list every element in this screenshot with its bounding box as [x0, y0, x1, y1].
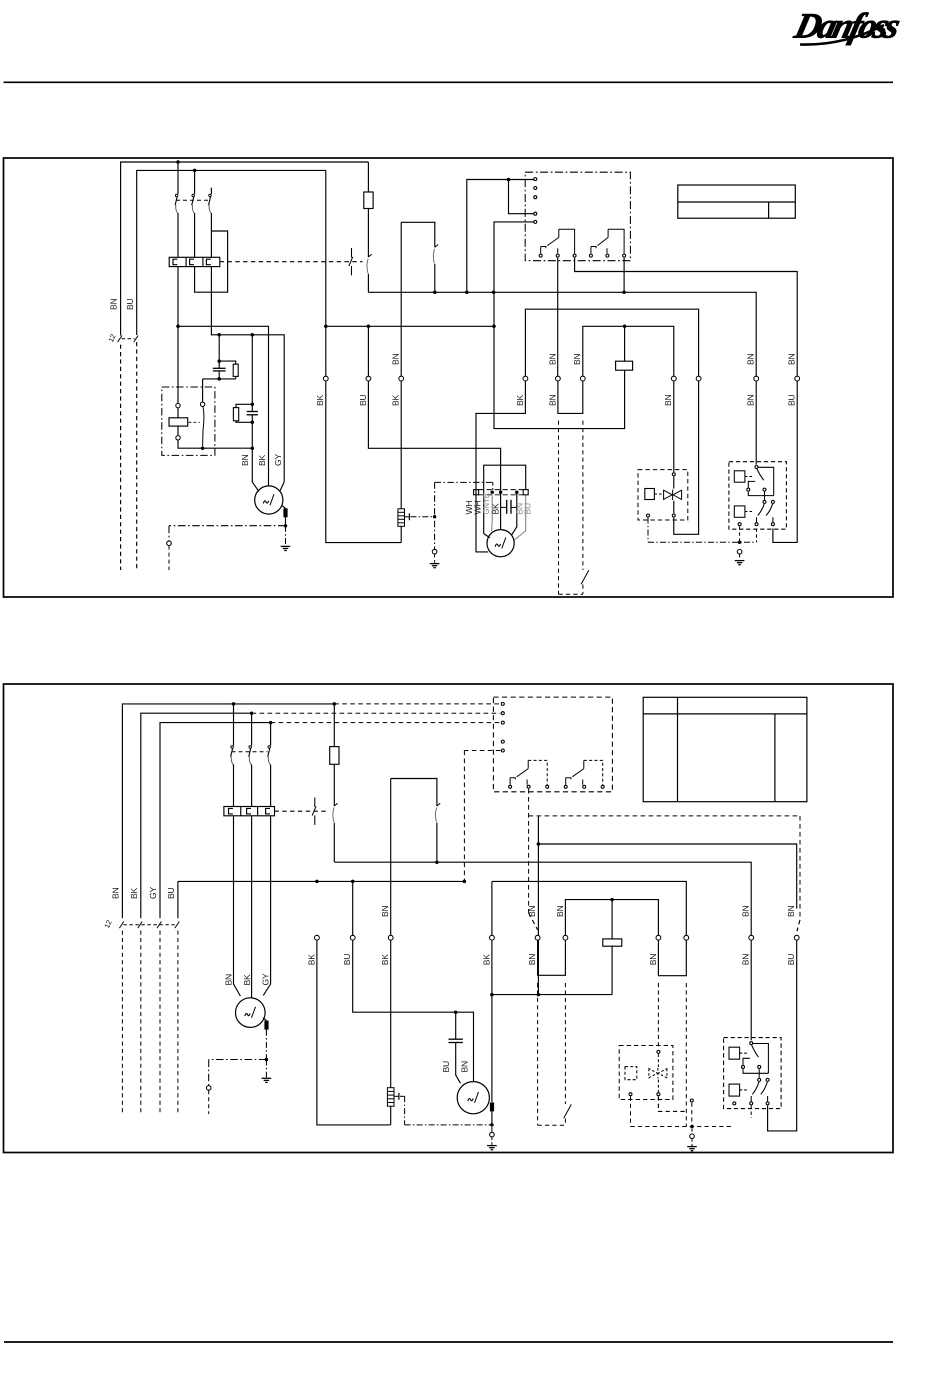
pole3 wire to BU motor feed [211, 267, 284, 482]
jumper U3 [658, 940, 686, 976]
wire BN to BK fan motor (segment A) [178, 326, 269, 486]
svg-text:BN: BN [555, 905, 565, 917]
cable gland left [474, 490, 479, 495]
link T4 [509, 180, 536, 214]
legend table top [678, 185, 796, 218]
wire B2 to BN terminal [557, 258, 559, 376]
capacitor C4 [449, 1039, 463, 1042]
module T5 [534, 220, 537, 223]
wire BU dashed continuation [136, 342, 138, 570]
ground M2 circuit [430, 564, 440, 568]
compressor motor M4 [457, 1082, 489, 1114]
svg-text:BU: BU [786, 954, 796, 966]
terminal Y796 [794, 935, 799, 940]
junction T1/T4 [507, 178, 511, 182]
pi net 326 [583, 326, 674, 376]
junction aux contact 2 [435, 860, 439, 864]
svg-text:BN: BN [547, 353, 557, 365]
terminal X797 [795, 376, 800, 381]
capacitor C3 [507, 500, 511, 514]
M4 PTC + BK sense wire [491, 940, 493, 1102]
run capacitor branch [251, 335, 253, 412]
BK heater loop [317, 940, 391, 1125]
junction coil top [623, 325, 627, 329]
svg-text:GY: GY [148, 887, 158, 899]
relay actuation dashed [189, 421, 200, 423]
triac unit box [638, 470, 688, 520]
wire L3 feed [160, 723, 271, 919]
BN wire to pressure switch [755, 381, 757, 465]
relay coil K2 [616, 361, 633, 370]
junction BK wire [324, 325, 328, 329]
ground M3 [262, 1078, 272, 1082]
BU riser to terminal [367, 326, 369, 376]
terminal Y658 [656, 935, 661, 940]
junction M1 ground node [284, 524, 288, 528]
run resistor R2 [236, 404, 252, 407]
breaker linkage dashed [176, 199, 208, 201]
terminal Y751 [749, 935, 754, 940]
BN wire to pressure switch 2 [750, 940, 752, 1040]
fan motor M1 [255, 486, 283, 514]
module B4 [589, 254, 592, 257]
BU return to switch [773, 381, 797, 542]
svg-text:BN: BN [648, 954, 658, 966]
junction BU aux riser [537, 842, 541, 846]
ground M1 [281, 546, 291, 550]
terminal X368 [366, 376, 371, 381]
aux NC contact 2 [435, 803, 440, 822]
junction M3 ground node [265, 1058, 269, 1062]
start capacitor C1 [213, 368, 226, 371]
junction aux contact [433, 291, 437, 295]
module T4 [534, 212, 537, 215]
coil earth dash-dot [647, 518, 649, 543]
triac [664, 490, 682, 500]
terminal X401 [399, 376, 404, 381]
overload relay F3 [224, 807, 275, 816]
module2 B2 [527, 785, 530, 788]
cable gland right [523, 490, 528, 495]
wire L2 feed [141, 713, 252, 918]
wire GY into fan motor [280, 482, 284, 491]
terminal earth M4 [490, 1132, 495, 1137]
bottom diagram frame [4, 684, 894, 1153]
overload NC contact [367, 254, 372, 273]
junction cap branch [454, 1010, 458, 1014]
fuse F4 [333, 704, 335, 747]
junction earth node [738, 540, 742, 544]
heater 2 earth tap [394, 1095, 399, 1097]
svg-text:BK: BK [391, 394, 401, 406]
svg-text:BK: BK [306, 954, 316, 966]
pin relay top [176, 403, 180, 407]
junction coil return [490, 993, 494, 997]
switch earth lead [739, 526, 741, 542]
terminal X582 [580, 376, 585, 381]
optional dashed pair [558, 421, 560, 595]
heater earth tap [405, 516, 410, 518]
svg-text:BN: BN [240, 454, 250, 466]
svg-text:BN: BN [547, 394, 557, 406]
svg-text:BN: BN [746, 394, 756, 406]
terminal earth M2 [432, 549, 437, 554]
svg-text:BK: BK [242, 974, 252, 986]
terminal plate [479, 489, 524, 491]
svg-text:BN: BN [111, 887, 121, 899]
terminal Y491 [490, 935, 495, 940]
module B5 [606, 254, 609, 257]
terminal earth switch [737, 549, 742, 554]
svg-text:BN: BN [224, 974, 234, 986]
header rule [4, 81, 894, 83]
wire L1 feed [122, 704, 334, 918]
gray GNYE drop to motor [491, 495, 494, 531]
legend table bottom [643, 697, 807, 801]
pin triac2 bottom [657, 1093, 660, 1096]
pin coil2 bottom [629, 1093, 632, 1096]
overload F3 NC contact [333, 803, 338, 822]
dashed earth routing [630, 1096, 632, 1126]
module relay contact 2 [591, 229, 624, 253]
BU return to switch 2 [768, 940, 797, 1131]
junction coil K3 top [610, 898, 614, 902]
plate junction [490, 490, 494, 494]
svg-text:BK: BK [129, 887, 139, 899]
pole1 wire down to start relay [177, 267, 179, 404]
fuse F2 [367, 162, 369, 192]
crankcase heater E2 [387, 1088, 394, 1107]
svg-text:BU: BU [441, 1061, 451, 1073]
terminal X756 [754, 376, 759, 381]
svg-text:BN: BN [741, 905, 751, 917]
terminal X673 [671, 376, 676, 381]
junction BU riser on segment B [367, 325, 371, 329]
wire to BU terminal 796 [538, 844, 796, 909]
terminal X557 [556, 376, 561, 381]
wire BN into fan motor [252, 448, 259, 491]
BK heater wire (down from aux frame) [400, 222, 402, 376]
module2 T4 [501, 740, 504, 743]
pin triac bottom [672, 514, 675, 517]
trip operator [349, 248, 353, 275]
terminal X698 [696, 376, 701, 381]
BU wire to compressor BK terminal [368, 381, 500, 530]
wire start branch to relay contact [203, 378, 236, 380]
fan motor M3 [236, 998, 266, 1028]
svg-text:BK: BK [315, 394, 325, 406]
breaker Q2 linkage [232, 751, 268, 753]
link T5 [494, 222, 625, 429]
break symbol 12 top [118, 336, 139, 343]
start relay K1 box [162, 387, 215, 455]
dashed pair B to triac unit [657, 983, 659, 1050]
relay K1 contact [202, 379, 204, 402]
terminal Y565 [563, 935, 568, 940]
module2 B5 [583, 785, 586, 788]
svg-text:GY: GY [260, 973, 270, 985]
dashed rail 816 [529, 815, 800, 817]
terminal Y686 [684, 935, 689, 940]
BU feed from aux row [177, 881, 179, 918]
series link pole2/pole3 [195, 231, 228, 292]
junction earth node 2 [690, 1125, 694, 1129]
junction run-cap branch [251, 333, 255, 337]
junction contact bottom [201, 446, 205, 450]
module2 B3 [546, 785, 549, 788]
module T2 [534, 187, 537, 190]
riser to module T1 [467, 180, 536, 293]
footer rule [4, 1341, 893, 1343]
svg-text:BU: BU [787, 394, 797, 406]
jumper U2 [538, 940, 566, 975]
junction B2 drop [537, 993, 541, 997]
module2 B6 [601, 785, 604, 788]
junction M4 ground node [490, 1123, 494, 1127]
terminal Y316 [315, 935, 320, 940]
terminal earth connector 2 [206, 1086, 211, 1091]
M1 ground dash-dot to connector [169, 525, 286, 527]
contact in dashed pair A [564, 1104, 572, 1118]
svg-text:BN: BN [741, 954, 751, 966]
bracket 309 [525, 309, 698, 376]
svg-text:BN: BN [663, 394, 673, 406]
svg-text:GY: GY [273, 454, 283, 466]
crankcase heater E1 [398, 509, 405, 527]
module2 relay contact 1 [510, 760, 547, 784]
fan motor PTC protector [282, 505, 286, 508]
svg-text:BU: BU [358, 394, 368, 406]
circuit breaker Q1 pole 2 [194, 170, 196, 194]
terminal X525 [523, 376, 528, 381]
svg-text:BN: BN [787, 353, 797, 365]
terminal X325 [323, 376, 328, 381]
BK wire to heater [325, 170, 327, 376]
circuit breaker Q1 pole 3 (stub) [210, 188, 212, 194]
control bus 292 [368, 292, 756, 376]
BU wire upper segment [352, 881, 354, 935]
module B6 [623, 254, 626, 257]
breaker Q2 pole 1 [233, 704, 235, 746]
wire BN dashed continuation [120, 345, 122, 570]
svg-text:BK: BK [257, 454, 267, 466]
breaker Q2 pole 2 [251, 713, 253, 745]
module2 B4 [564, 785, 567, 788]
junction T5 riser [492, 291, 496, 295]
wire BK heater [400, 381, 402, 509]
aux rail segment 2 [491, 881, 493, 935]
triac 2 [649, 1068, 667, 1078]
overload F3 trip linkage [275, 810, 330, 812]
cap wire drop [512, 492, 517, 535]
control bus 862 [334, 862, 751, 935]
dashed wire tail [140, 931, 142, 1115]
breaker Q2 pole 3 [270, 723, 272, 746]
svg-text:BU: BU [125, 298, 135, 310]
dashed wire tail [121, 931, 123, 1115]
BK heater wire 2 [390, 779, 392, 936]
triac coil square 2 [625, 1067, 637, 1080]
module relay contact 1 [541, 229, 575, 253]
terminal earth switch 2 [690, 1134, 695, 1139]
svg-text:BK: BK [490, 503, 500, 515]
dashed pair A [537, 983, 539, 1125]
aux contact frame 2 [391, 779, 437, 807]
overload trip linkage dashed [220, 261, 363, 263]
run capacitor C2 [247, 412, 258, 415]
junction GNYE tap [433, 515, 437, 519]
terminal Y352 [350, 935, 355, 940]
relay K1 bottom wire [178, 440, 252, 448]
junction B6 [622, 291, 626, 295]
module B2 [556, 254, 559, 257]
wire BK to fan M3 [251, 816, 253, 998]
terminal Y537 [535, 935, 540, 940]
break symbol 12 bottom [119, 922, 179, 929]
svg-text:BN: BN [786, 905, 796, 917]
junction BN motor wire [251, 446, 255, 450]
B2 dashed drop [528, 789, 530, 913]
pin relay contact top [200, 402, 204, 406]
circuit breaker Q1 pole 1 [177, 162, 179, 194]
WH2 loop [484, 534, 490, 538]
coil return rail [492, 994, 612, 996]
control module A1 [525, 172, 630, 261]
svg-text:BN: BN [391, 353, 401, 365]
dashed wire tail [159, 931, 161, 1115]
wire GY to fan M3 [263, 816, 270, 996]
aux NC contact [433, 245, 438, 264]
junction start-cap branch [217, 333, 221, 337]
relay coil K3 [603, 939, 622, 946]
pin triac2 top [657, 1050, 660, 1053]
dashed feeds to module [334, 703, 500, 705]
GNYE earth dash-dot [434, 482, 436, 549]
pi net 899 [565, 900, 658, 936]
pin coil bottom [647, 514, 650, 517]
jumper U [558, 381, 583, 413]
svg-text:BN: BN [527, 905, 537, 917]
junction pole1 feed [176, 160, 180, 164]
BN lower lead 2 [750, 1106, 752, 1119]
terminal Y390 [388, 935, 393, 940]
contact in dashed pair [581, 570, 589, 584]
BN branch node [176, 325, 180, 329]
pressure switch B2 [724, 1038, 782, 1109]
aux contact frame [401, 222, 435, 247]
module2 T1 [501, 702, 504, 705]
module B1 [539, 254, 542, 257]
triac coil square [645, 489, 655, 500]
solid drop 538 [537, 816, 539, 995]
module2 T2 [501, 712, 504, 715]
start capacitor branch [218, 335, 220, 368]
wire B3 to BU terminal [575, 258, 798, 376]
wire N (BU feed) [137, 170, 326, 335]
module2 T3 [501, 721, 504, 724]
wire BN to fan M3 [234, 816, 241, 996]
ground switch 2 [687, 1147, 697, 1151]
svg-text:BU: BU [523, 503, 533, 515]
junction segment B / T5 riser [492, 325, 496, 329]
segment B [326, 325, 494, 327]
svg-text:BK: BK [515, 394, 525, 406]
plate junction [515, 490, 519, 494]
pressure switch B1 [729, 462, 787, 530]
triac unit box 2 [619, 1046, 673, 1100]
svg-text:BN: BN [109, 298, 119, 310]
dashed wire tail [177, 931, 179, 1115]
Danfoss logo [790, 6, 903, 45]
svg-text:BN: BN [527, 954, 537, 966]
ground M4 [487, 1146, 497, 1150]
fan M3 PTC protector [263, 1018, 266, 1021]
module B3 [573, 254, 576, 257]
compressor motor M2 [487, 530, 514, 557]
top diagram frame [4, 158, 894, 597]
aux rail segment 1 [178, 880, 465, 882]
start resistor R1 [219, 361, 236, 364]
trip operator F3 [312, 798, 316, 825]
svg-text:BU: BU [166, 887, 176, 899]
overload relay F1 [169, 257, 220, 266]
svg-text:BK: BK [380, 954, 390, 966]
module2 relay contact 2 [566, 760, 603, 784]
M3 earth dash-dot [209, 1059, 267, 1061]
run capacitor C4 [455, 1012, 457, 1039]
gray BU drop to motor [514, 495, 526, 540]
junction T1 riser [465, 291, 469, 295]
module T1 [534, 178, 537, 181]
T5 dashed wire [464, 750, 500, 752]
wire L (BN feed) [121, 162, 369, 336]
start relay coil K1 [169, 418, 188, 426]
svg-text:BN: BN [746, 353, 756, 365]
svg-text:BN: BN [572, 353, 582, 365]
BN lower lead [756, 528, 758, 542]
svg-text:WH: WH [473, 501, 483, 515]
BN wire through triac [673, 381, 675, 472]
wire B6 to bus [623, 258, 625, 293]
terminal earth connector [167, 541, 172, 546]
plate junction [499, 490, 503, 494]
module2 B1 [509, 785, 512, 788]
junction pole2 feed [193, 169, 197, 173]
pin triac top [672, 473, 675, 476]
module2 T5 [501, 749, 504, 752]
pin relay bottom [176, 436, 180, 440]
svg-text:BN: BN [460, 1061, 470, 1073]
pin switch earth 2 [690, 1099, 693, 1102]
BU wire to run cap node [353, 940, 474, 1082]
svg-text:BN: BN [380, 905, 390, 917]
WH1 wire [476, 381, 525, 552]
module T3 [534, 196, 537, 199]
svg-text:BU: BU [342, 954, 352, 966]
ground switch [735, 561, 745, 565]
svg-text:BK: BK [481, 954, 491, 966]
control module A2 [493, 697, 612, 792]
